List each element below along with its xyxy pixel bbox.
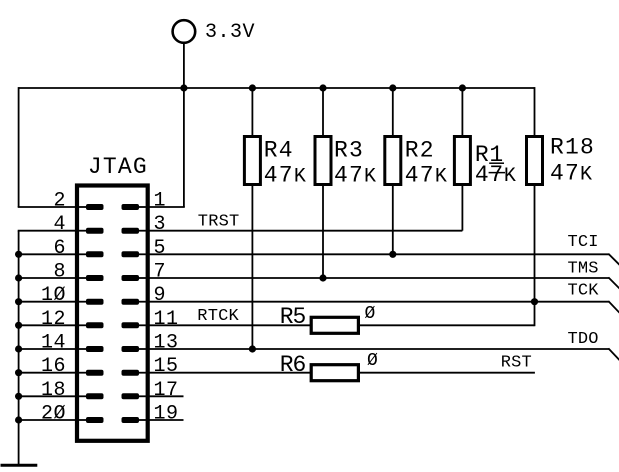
svg-text:14: 14 <box>41 332 66 355</box>
svg-text:1: 1 <box>154 190 167 213</box>
svg-text:6: 6 <box>53 237 66 260</box>
wire pin6 <box>18 253 79 255</box>
svg-text:47K: 47K <box>550 161 593 187</box>
node bus junction R3 <box>319 84 326 91</box>
wire R5 right lead <box>358 324 534 326</box>
net RTCK wire pin11 <box>146 324 312 326</box>
node bus junction 3.3V <box>180 84 187 91</box>
svg-text:R2: R2 <box>405 138 435 164</box>
svg-text:9: 9 <box>154 284 167 307</box>
svg-text:RST: RST <box>501 353 532 372</box>
svg-text:Ø: Ø <box>365 304 376 324</box>
resistor R2 <box>385 88 448 254</box>
wire left vertical bus (pin4 to gnd) <box>18 231 20 466</box>
wire pin18 <box>18 395 79 397</box>
svg-text:18: 18 <box>41 379 66 402</box>
svg-text:13: 13 <box>154 332 179 355</box>
svg-text:16: 16 <box>41 355 66 378</box>
net TRST wire pin3 <box>146 230 463 232</box>
wire pin2 <box>18 206 79 208</box>
svg-text:8: 8 <box>53 261 66 284</box>
svg-text:3.3V: 3.3V <box>205 21 255 44</box>
wire 3.3V stem <box>183 44 185 88</box>
svg-text:17: 17 <box>154 379 179 402</box>
wire pin12 <box>18 324 79 326</box>
resistor R18 <box>527 87 596 302</box>
wire pin4 <box>18 230 79 232</box>
node bus junction R4 <box>249 84 256 91</box>
svg-text:1Ø: 1Ø <box>41 284 66 307</box>
node left bus junctions <box>15 251 22 424</box>
resistor R3 <box>315 88 377 278</box>
resistor R5 <box>280 304 376 333</box>
svg-text:2: 2 <box>53 190 66 213</box>
svg-text:5: 5 <box>154 237 167 260</box>
connector JTAG body <box>77 186 148 441</box>
svg-text:JTAG: JTAG <box>88 154 148 180</box>
svg-text:R18: R18 <box>550 135 595 161</box>
svg-text:R4: R4 <box>264 138 294 164</box>
svg-text:47K: 47K <box>334 163 377 189</box>
net RST wire R6 right lead <box>358 372 535 374</box>
wire pin19 stub <box>146 419 184 421</box>
svg-text:R3: R3 <box>334 138 364 164</box>
pin numbers right column <box>154 190 179 426</box>
svg-text:RTCK: RTCK <box>197 307 239 326</box>
wire pin1 <box>146 206 185 208</box>
node TDO-R4 junction <box>249 345 256 352</box>
connector pin contacts rows <box>79 204 146 423</box>
svg-text:4: 4 <box>53 213 66 236</box>
pin numbers left column <box>41 190 66 426</box>
power symbol 3.3V <box>173 20 255 44</box>
svg-text:R6: R6 <box>280 352 306 378</box>
svg-text:TMS: TMS <box>568 260 599 279</box>
resistor R6 <box>280 351 378 381</box>
svg-text:TRST: TRST <box>198 212 240 231</box>
wire pin20 <box>18 419 79 421</box>
node bus junction R2 <box>389 84 396 91</box>
net TMS wire pin7 <box>146 277 619 289</box>
wire top bus <box>19 87 535 89</box>
resistor R1 <box>454 88 516 231</box>
svg-text:3: 3 <box>154 213 167 236</box>
node TDI-R2 junction <box>389 251 396 258</box>
wire pin16 <box>18 372 79 374</box>
net TCK wire pin9 <box>146 301 619 313</box>
svg-text:R5: R5 <box>280 304 306 330</box>
svg-text:2Ø: 2Ø <box>41 403 66 426</box>
wire pin17 stub <box>146 395 184 397</box>
svg-text:Ø: Ø <box>367 351 378 371</box>
svg-text:12: 12 <box>41 308 66 331</box>
svg-text:47K: 47K <box>475 162 517 188</box>
svg-text:11: 11 <box>154 308 179 331</box>
svg-text:TCI: TCI <box>568 233 599 252</box>
wire pin10 <box>18 301 79 303</box>
wire 3.3V column down to pin1 <box>183 88 185 207</box>
svg-text:TCK: TCK <box>568 282 600 301</box>
wire pin15 to R6 <box>146 372 312 374</box>
net TDO wire pin13 <box>146 348 619 360</box>
resistor R4 <box>244 88 307 349</box>
ground <box>1 464 38 467</box>
svg-text:TDO: TDO <box>568 330 599 349</box>
svg-text:7: 7 <box>154 261 167 284</box>
wire pin14 <box>18 348 79 350</box>
svg-text:15: 15 <box>154 355 179 378</box>
wire pin8 <box>18 277 79 279</box>
svg-text:47K: 47K <box>405 163 448 189</box>
node bus junction R1 <box>459 84 466 91</box>
net TDI wire pin5 <box>146 254 619 266</box>
wire R5 up to TCK <box>534 302 536 327</box>
svg-text:19: 19 <box>154 403 179 426</box>
svg-text:47K: 47K <box>264 163 307 189</box>
node TCK junction R18 R5 <box>531 298 538 305</box>
node TMS-R3 junction <box>319 274 326 281</box>
wire left drop to pin2 <box>18 87 20 207</box>
